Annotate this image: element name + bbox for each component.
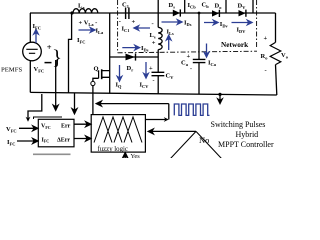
svg-text:IFC: IFC (7, 139, 15, 147)
svg-text:-: - (152, 21, 154, 28)
yes arrow into fuzzy (123, 153, 128, 158)
svg-text:Q: Q (94, 66, 99, 73)
svg-text:La: La (78, 3, 85, 11)
svg-text:Dr: Dr (127, 65, 134, 73)
err box (38, 119, 74, 147)
svg-text:+: + (149, 65, 153, 72)
network box bottom dash-dot (118, 51, 257, 53)
wire err to fuzzy arrow 2 (74, 136, 91, 141)
wire stub above rail at 184.7 (184, 0, 186, 13)
inductor Ls (158, 27, 162, 49)
svg-text:+: + (152, 40, 156, 47)
svg-text:MPPT Controller: MPPT Controller (218, 140, 274, 149)
transistor Q gate bar (98, 70, 100, 78)
svg-text:VFC: VFC (41, 124, 51, 130)
svg-text:}: } (52, 45, 62, 69)
svg-text:Ro: Ro (261, 53, 269, 61)
svg-text:-: - (153, 78, 155, 84)
svg-text:IDs: IDs (184, 19, 192, 27)
svg-text:IDV: IDV (237, 27, 247, 35)
current arrow I_Ls (167, 35, 171, 50)
svg-text:VFC: VFC (6, 126, 17, 134)
transistor Q gate circle (91, 81, 95, 85)
current arrow I_FC left (34, 30, 38, 44)
current arrow I_Ds top (162, 20, 183, 24)
svg-text:Do: Do (215, 3, 223, 11)
wire right rail upper (275, 13, 277, 42)
svg-text:DV: DV (238, 3, 247, 11)
diode Dv (239, 10, 246, 16)
svg-text:CV: CV (166, 73, 175, 81)
svg-text:+: + (132, 19, 136, 26)
svg-text:IFC: IFC (42, 137, 50, 143)
current arrow I_Do (204, 20, 218, 24)
wire IFC input arrow (17, 139, 38, 144)
svg-text:PEMFS: PEMFS (1, 67, 22, 74)
svg-text:VFC: VFC (34, 66, 45, 74)
svg-text:IQ: IQ (116, 82, 123, 90)
transistor Q gate lead (93, 78, 99, 81)
decision diamond (171, 131, 222, 158)
svg-text:+ VLa -: + VLa - (79, 20, 98, 28)
capacitor Cb (193, 59, 206, 62)
wire diamond to fuzzy arrow (148, 129, 196, 134)
wire Cb branch (198, 13, 200, 94)
svg-text:fuzzy logic: fuzzy logic (98, 146, 128, 153)
svg-text:+: + (187, 53, 191, 60)
current arrow I_Ds middle (122, 45, 139, 49)
svg-text:ICb: ICb (188, 2, 197, 10)
wire right rail lower (276, 65, 277, 95)
network box right dash-dot (256, 0, 258, 47)
grey separator line (33, 153, 71, 155)
svg-text:Ds: Ds (169, 2, 176, 10)
wire stub above rail at 226 (225, 0, 227, 13)
wire fuzzy out to pulses (145, 104, 168, 120)
wire err to fuzzy arrow 1 (74, 122, 91, 127)
svg-text:No: No (199, 135, 209, 145)
wire IFC sense line (72, 93, 77, 114)
wire top rail (30, 12, 276, 14)
svg-text:Switching Pulses: Switching Pulses (211, 120, 266, 129)
svg-text:Yes: Yes (131, 153, 141, 158)
svg-text:IFC: IFC (33, 23, 41, 31)
svg-text:Hybrid: Hybrid (236, 130, 259, 139)
current arrow I_Q (117, 65, 121, 81)
svg-text:-: - (119, 18, 121, 25)
wire stub above rail at 253 (252, 0, 254, 13)
svg-text:Ca: Ca (181, 60, 189, 68)
svg-text:Network: Network (221, 40, 249, 49)
inductor La (73, 9, 98, 13)
wire Ls branch vertical (157, 0, 159, 94)
wire node A2 vertical (drain branch) (109, 13, 111, 94)
svg-text:ILa: ILa (96, 28, 104, 36)
wire left rail lower (29, 61, 31, 92)
svg-text:IFC: IFC (77, 37, 85, 45)
svg-text:IC1: IC1 (122, 26, 130, 34)
wire VFC sense line (53, 60, 58, 110)
svg-text:-: - (265, 67, 267, 74)
svg-text:ICa: ICa (208, 59, 217, 67)
node Cb junction dot (198, 12, 201, 15)
wire node A down with jog (69, 13, 72, 93)
svg-text:C1: C1 (122, 2, 129, 10)
svg-text:IDs: IDs (141, 45, 149, 53)
svg-text:Vo: Vo (281, 52, 289, 60)
svg-text:-: - (190, 67, 192, 73)
current arrow I_La (79, 28, 96, 32)
current arrow I_Ca (204, 44, 208, 58)
wire gate vertical (92, 86, 94, 115)
label minus of source (45, 62, 52, 64)
diode Ds (173, 10, 180, 17)
current arrow I_C1 (134, 26, 150, 30)
wire left rail (29, 13, 31, 42)
resistor R (270, 42, 281, 64)
diode Dr (126, 54, 136, 61)
capacitor Cv (152, 72, 165, 75)
err box outer line (34, 117, 63, 119)
wire middle node (110, 56, 158, 58)
node rail junction dot (218, 93, 221, 96)
arrow rail to pulses (218, 94, 222, 103)
fuzzy membership triangles (94, 117, 142, 143)
network box left dash-dot (117, 0, 119, 53)
svg-text:Ls: Ls (150, 32, 156, 40)
wire bottom rail (30, 92, 276, 95)
node A junction dot (70, 11, 73, 14)
svg-text:Err: Err (61, 124, 71, 130)
transistor Q channel bar (101, 69, 103, 79)
svg-text:ILs: ILs (167, 29, 174, 37)
current arrow I_DV (232, 20, 253, 24)
fuzzy logic box (91, 115, 145, 153)
wire gate feed line (96, 101, 169, 106)
wire rail tap to VFC label (28, 94, 42, 119)
fuel cell source PEMFS (23, 42, 42, 61)
svg-text:IDv: IDv (220, 21, 229, 29)
wire VFC input arrow (19, 126, 38, 131)
diode Do (212, 10, 219, 16)
current arrow I_CV (144, 62, 148, 78)
switching pulses waveform (174, 104, 209, 115)
svg-text:ICV: ICV (140, 82, 150, 90)
svg-text:ΔErr: ΔErr (57, 137, 70, 143)
svg-text:Cb: Cb (202, 2, 210, 10)
svg-text:+: + (264, 35, 268, 42)
capacitor C1 (126, 8, 129, 20)
transistor Q mosfet leads (102, 71, 110, 78)
